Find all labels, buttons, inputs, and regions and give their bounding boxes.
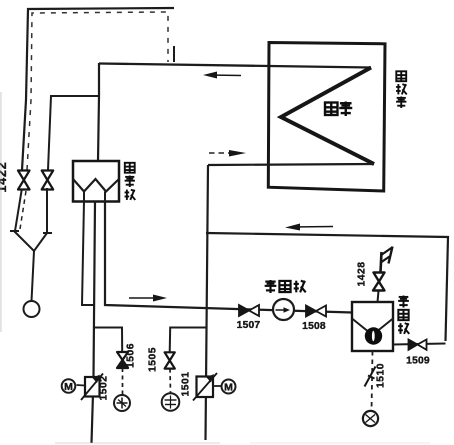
label: chamber name (rotated right of box) [398, 296, 409, 334]
wire: top pipe to condenser (continues as coil top arm) [99, 64, 371, 68]
wire: right screen outlet down to pump suction [105, 201, 352, 313]
svg-text:M: M [64, 381, 73, 393]
wire: main vertical line x=206 [206, 165, 209, 440]
label: ball screen name (rotated right of box) [125, 163, 136, 200]
wire: long return pipe y=237 and right riser [206, 233, 448, 341]
valve 1505 [165, 352, 175, 368]
wire: right screen outlet stub inside box [104, 192, 106, 202]
wire: link to actuator circle 1502 [77, 384, 86, 387]
wire: solid below valve 1422 [15, 188, 22, 231]
ball screen W mesh [73, 179, 119, 192]
vent flag [381, 247, 393, 273]
svg-text:1505: 1505 [148, 347, 159, 372]
wire: left screen outlet stub inside box [83, 192, 85, 202]
ball pump [273, 299, 294, 320]
funnel (drain hopper) [10, 231, 52, 251]
ball screen box [73, 161, 119, 202]
wire: 1505 branch [170, 328, 206, 353]
svg-text:1507: 1507 [237, 320, 261, 331]
wire: middle screen outlet down through 1502 to bottom [92, 201, 96, 443]
instrument circle below drain [363, 411, 378, 426]
ball loading chamber box [352, 302, 393, 351]
svg-text:M: M [224, 381, 233, 393]
instrument circle below 1505 [162, 393, 180, 411]
wire: top-left inner dashed loop [27, 12, 168, 170]
wire: left screen outlet down [82, 201, 95, 305]
wire: solid stub right end of top loop [173, 46, 175, 62]
valve 1508 [306, 306, 326, 317]
valve 1510 (slash symbol) [365, 367, 376, 387]
actuator circle of 1502 [62, 379, 76, 393]
dashed arrow (right) above outlet pipe [209, 150, 246, 157]
arrow (left) on top pipe [203, 72, 241, 79]
wire: 1506 branch [94, 328, 122, 353]
label: condenser name (right side, rotated) [396, 71, 407, 108]
arrow (right) on pump suction pipe [129, 295, 167, 302]
control valve 1502 (box with diagonal) [81, 374, 103, 401]
chamber V baffle [352, 319, 393, 336]
wire: condenser outlet pipe to the left [208, 164, 374, 165]
instrument circle below 1506 [114, 395, 130, 411]
condenser tube coil chevron [281, 68, 374, 165]
wire: funnel stem [32, 251, 35, 301]
svg-text:1510: 1510 [376, 363, 387, 388]
wire: vertical from top pipe down to ball screen [98, 63, 99, 161]
svg-text:1501: 1501 [181, 372, 192, 397]
valve 1428 [373, 273, 385, 291]
valve (unlabelled, right of 1422) [42, 171, 54, 190]
wire: chamber outlet to valve 1509 [393, 344, 446, 345]
wire: below valve 1505 [169, 369, 172, 393]
wire: below valve 1506 [122, 368, 124, 395]
wire: link to actuator circle 1501 [213, 385, 222, 387]
wire: dashed below valve 1422 [20, 191, 26, 229]
svg-text:1502: 1502 [99, 376, 110, 401]
svg-text:1428: 1428 [357, 262, 368, 287]
valve 1509 [409, 340, 427, 350]
control valve 1501 (box with diagonal) [193, 373, 217, 401]
scan smudges [0, 92, 2, 332]
svg-text:1506: 1506 [126, 343, 137, 368]
svg-text:1509: 1509 [406, 356, 430, 367]
instrument circle below funnel [24, 301, 40, 317]
valve 1507 [239, 305, 259, 316]
condenser box [268, 43, 385, 192]
arrow (left) on return pipe [285, 224, 333, 231]
label: text inside condenser [325, 102, 352, 117]
wire: top-left outer solid loop [22, 8, 174, 170]
wire: chamber top vent stub [378, 291, 379, 302]
wire: below second valve to funnel [46, 188, 48, 232]
valve 1422 [18, 171, 30, 190]
actuator circle of 1501 [222, 380, 236, 394]
ball inside chamber [365, 327, 382, 344]
svg-text:1508: 1508 [302, 321, 326, 332]
wire: second valve feed from (51,96) [48, 96, 98, 170]
valve 1506 [117, 352, 128, 368]
label: pump name [265, 280, 306, 293]
wire: dashed chamber drain [372, 351, 373, 412]
